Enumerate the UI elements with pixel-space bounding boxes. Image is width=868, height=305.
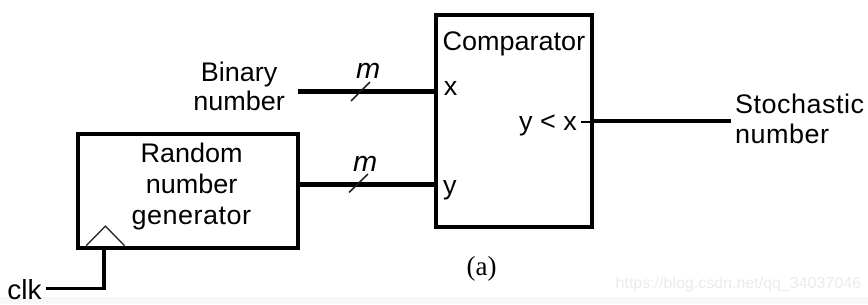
clock input caret on RNG box <box>86 226 125 246</box>
watermark <box>616 276 862 292</box>
pin label x <box>444 73 458 100</box>
wire clk riser <box>102 250 107 290</box>
pin label y <box>443 172 457 199</box>
bus slash on x input <box>351 82 370 101</box>
label Binary number <box>139 58 339 116</box>
label Comparator <box>443 28 586 55</box>
label Random number generator <box>92 138 292 231</box>
bus width label m (x input) <box>356 55 380 84</box>
wire x input bus <box>298 89 434 94</box>
wire output <box>594 119 731 123</box>
bus width label m (y input) <box>353 148 377 177</box>
bottom strip <box>0 297 868 304</box>
comparator box U1 <box>434 13 594 229</box>
label y < x <box>519 108 577 135</box>
wire y input bus <box>300 182 434 187</box>
label Stochastic number <box>735 89 865 150</box>
wire output stub <box>581 121 594 123</box>
bus slash on y input <box>349 174 368 193</box>
label clk <box>7 276 41 304</box>
wire clk horizontal <box>46 287 102 291</box>
caption (a) <box>467 253 497 280</box>
random number generator box U2 <box>76 132 300 250</box>
